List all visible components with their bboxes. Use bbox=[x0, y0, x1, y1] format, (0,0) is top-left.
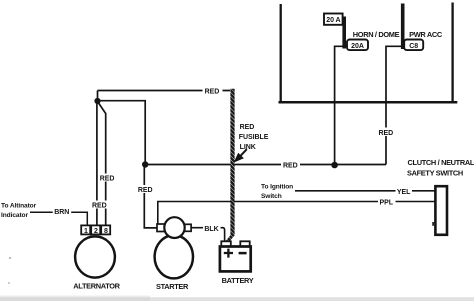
fuse F1 box 20 A bbox=[324, 14, 343, 25]
wire: BLK wire solenoid to battery positive bbox=[191, 228, 225, 242]
wire: starter feed down to solenoid bbox=[144, 165, 157, 228]
svg-text:8: 8 bbox=[104, 228, 108, 235]
label STARTER bbox=[156, 282, 189, 291]
svg-text:20A: 20A bbox=[351, 43, 364, 50]
node: alternator junction dot bbox=[94, 98, 100, 104]
battery minus symbol bbox=[239, 252, 247, 255]
wire: RED main horizontal bus bbox=[145, 164, 386, 166]
starter solenoid right terminal bbox=[185, 224, 192, 231]
svg-text:HORN / DOME: HORN / DOME bbox=[353, 30, 400, 39]
svg-text:To Ignition: To Ignition bbox=[261, 184, 293, 191]
svg-text:PPL: PPL bbox=[379, 200, 393, 207]
svg-text:Indicator: Indicator bbox=[1, 212, 28, 219]
svg-text:PWR ACC: PWR ACC bbox=[409, 30, 443, 39]
svg-text:CLUTCH / NEUTRAL: CLUTCH / NEUTRAL bbox=[408, 158, 474, 167]
svg-text:RED: RED bbox=[240, 124, 255, 131]
net label RED (starter feed) bbox=[136, 185, 155, 194]
label HORN / DOME bbox=[353, 30, 400, 39]
node: starter junction dot bbox=[142, 161, 148, 167]
fuse panel: left edge bbox=[280, 4, 282, 102]
wire: bus corner up to PWR ACC C8 bbox=[386, 46, 405, 164]
svg-text:YEL: YEL bbox=[397, 189, 411, 196]
svg-text:RED: RED bbox=[100, 176, 115, 183]
net label YEL bbox=[396, 187, 413, 196]
label RED FUSIBLE LINK bbox=[239, 124, 269, 151]
arrow to fusible link bbox=[234, 149, 247, 162]
svg-text:BRN: BRN bbox=[54, 209, 69, 216]
svg-text:20 A: 20 A bbox=[326, 17, 340, 24]
label ALTERNATOR bbox=[73, 282, 120, 291]
starter motor M1 body bbox=[155, 235, 193, 278]
svg-text:C8: C8 bbox=[409, 43, 418, 50]
fuse panel: bottom edge bbox=[279, 101, 458, 104]
svg-text:To Altinator: To Altinator bbox=[1, 203, 37, 210]
fusible link: thick hatched wire to battery bbox=[225, 89, 235, 243]
net label RED (pin 8 wire) bbox=[98, 174, 116, 183]
svg-text:RED: RED bbox=[205, 89, 220, 96]
battery positive tab bbox=[221, 241, 231, 246]
node: fuse panel junction dot bbox=[331, 162, 338, 169]
label CLUTCH / NEUTRAL SAFETY SWITCH bbox=[407, 158, 474, 178]
wire: junction to starter feed (right then down) bbox=[98, 101, 146, 165]
starter solenoid bbox=[164, 217, 184, 238]
fuse panel: right edge bbox=[451, 3, 453, 104]
svg-text:ALTERNATOR: ALTERNATOR bbox=[73, 282, 120, 291]
svg-text:BLK: BLK bbox=[204, 226, 218, 233]
battery negative tab bbox=[240, 241, 249, 246]
net label RED (main bus) bbox=[281, 161, 300, 170]
net label PPL bbox=[378, 198, 396, 207]
svg-text:LINK: LINK bbox=[240, 144, 256, 151]
svg-text:RED: RED bbox=[378, 130, 393, 137]
switch left stub artifact bbox=[432, 222, 435, 226]
battery BT1 body bbox=[220, 247, 251, 272]
wire: thick feed to PWR ACC bbox=[401, 4, 405, 50]
net label RED (pin 2 wire) bbox=[90, 201, 109, 210]
battery plus symbol bbox=[224, 249, 233, 258]
label BATTERY bbox=[222, 276, 254, 285]
scan artifact bottom streak bbox=[0, 296, 474, 301]
alternator connector pin 2 bbox=[91, 225, 100, 235]
svg-text:BATTERY: BATTERY bbox=[222, 276, 254, 285]
net label RED (top feed) bbox=[203, 87, 223, 96]
svg-text:SAFETY SWITCH: SAFETY SWITCH bbox=[407, 169, 463, 178]
wire: RED feed top-left horizontal bbox=[98, 90, 231, 92]
wire: alternator pin 8 wire (diagonal then vertical) bbox=[98, 103, 106, 227]
alternator connector pin 1 bbox=[81, 225, 90, 235]
alternator G1 body bbox=[75, 236, 115, 277]
wire: YEL wire from ignition switch label to safety switch bbox=[295, 190, 436, 192]
svg-text:FUSIBLE: FUSIBLE bbox=[239, 134, 269, 141]
wire: alternator pin 2 wire bbox=[96, 101, 98, 226]
label PWR ACC bbox=[409, 30, 443, 39]
svg-text:1: 1 bbox=[84, 228, 88, 235]
connector C8 (pwr acc) bbox=[404, 40, 423, 51]
connector 20A (horn/dome fuse) bbox=[347, 40, 368, 51]
svg-text:RED: RED bbox=[138, 187, 153, 194]
svg-text:STARTER: STARTER bbox=[156, 282, 189, 291]
scan artifact specks left bbox=[8, 257, 11, 284]
wire: vertical from top line down to junction bbox=[97, 91, 99, 102]
wire: thick feed from 20 A fuse bbox=[342, 17, 346, 49]
label To Altinator Indicator bbox=[1, 203, 37, 220]
svg-text:2: 2 bbox=[94, 228, 98, 235]
label To Ignition Switch bbox=[261, 184, 293, 201]
svg-text:Switch: Switch bbox=[261, 193, 282, 200]
switch S1 clutch/neutral safety switch body bbox=[435, 186, 447, 235]
net label BLK bbox=[203, 224, 221, 233]
net label RED (C8 wire) bbox=[377, 128, 396, 137]
starter solenoid left terminal bbox=[157, 224, 165, 232]
alternator connector pin 8 bbox=[101, 225, 110, 235]
wire: junction up to HORN/DOME 20A fuse bbox=[335, 46, 348, 165]
wire: PPL wire from solenoid to safety switch bbox=[158, 202, 436, 225]
svg-text:RED: RED bbox=[283, 163, 298, 170]
net label BRN bbox=[53, 206, 71, 216]
wire: BRN wire to alternator pin 1 bbox=[30, 212, 87, 225]
svg-text:RED: RED bbox=[92, 203, 107, 210]
